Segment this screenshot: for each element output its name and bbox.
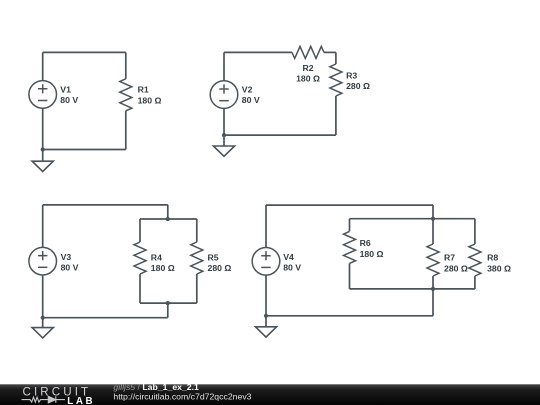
label V1 80 V [60,84,78,105]
wire C3 R5 lower lead [196,274,198,303]
wire C4 ground stem [265,316,267,327]
resistor R8 [469,244,481,276]
svg-text:80 V: 80 V [242,95,260,105]
wire C3 R4 upper lead [139,219,141,242]
resistor R4 [134,242,146,274]
voltage source V3 [29,247,57,275]
wire C3 top drop [167,205,169,219]
wire C2 right-upper [335,52,337,64]
svg-text:180 Ω: 180 Ω [296,73,320,83]
svg-text:R2: R2 [302,63,313,73]
ground GND3 [32,328,53,338]
label V4 80 V [283,252,301,273]
junction node C2 ground [222,133,226,137]
svg-text:280 Ω: 280 Ω [208,263,232,273]
junction node C4 top rail [431,217,435,221]
resistor R5 [191,242,203,274]
svg-text:R3: R3 [346,70,357,80]
wire C3 R5 upper lead [196,219,198,242]
voltage source V1 [29,81,57,109]
label R4 180 Ohm [151,253,175,273]
wire C4 R7 upper lead [432,219,434,244]
svg-text:180 Ω: 180 Ω [138,96,162,106]
wire C1 left-upper [42,52,44,80]
wire C3 left-upper [42,205,44,248]
wire C1 ground stem [42,150,44,162]
logo wire-resistor-diode art [22,396,66,403]
label R8 380 Ohm [487,252,511,273]
wire C2 bottom [224,134,336,136]
wire C4 R6 upper lead [349,219,351,232]
resistor R6 [344,231,356,263]
svg-text:180 Ω: 180 Ω [360,249,384,259]
wire C2 top-left [224,51,292,53]
wire C4 left-upper [265,205,267,247]
wire C1 bottom [43,149,126,151]
label R3 280 Ohm [346,70,370,91]
wire C3 bottom drop [167,303,169,318]
svg-text:R7: R7 [444,252,455,262]
junction node C4 bottom rail [431,287,435,291]
wire C1 left-lower [42,108,44,149]
wire C3 left-lower [42,275,44,318]
svg-text:80 V: 80 V [61,263,79,273]
svg-text:R5: R5 [208,253,219,263]
wire C2 ground stem [223,135,225,146]
wire C3 bottom rail [140,302,197,304]
wire C2 right-lower [335,96,337,135]
svg-text:280 Ω: 280 Ω [444,263,468,273]
wire C3 bottom [43,317,168,319]
wire C4 bottom [266,315,433,317]
svg-text:80 V: 80 V [283,263,301,273]
wire C4 top drop [432,205,434,219]
wire C1 top [43,51,126,53]
wire C4 R8 lower lead [474,276,476,289]
ground GND2 [213,146,234,156]
svg-text:V4: V4 [283,252,294,262]
wire C4 R7 lower lead [432,276,434,289]
label R5 280 Ohm [208,253,232,273]
junction node C3 top rail [166,217,170,221]
wire C2 left-upper [223,52,225,80]
wire C4 top [266,204,433,206]
label R6 180 Ohm [360,238,384,259]
label V2 80 V [242,85,260,106]
resistor R2 [292,46,324,58]
wire C4 left-lower [265,275,267,316]
svg-text:LAB: LAB [67,396,95,405]
svg-text:R4: R4 [151,253,162,263]
resistor R7 [427,244,439,276]
svg-text:380 Ω: 380 Ω [487,263,511,273]
svg-text:R1: R1 [138,85,149,95]
resistor R1 [120,79,132,111]
svg-text:V2: V2 [242,85,253,95]
label V3 80 V [61,252,79,273]
label R2 180 Ohm [296,63,320,83]
junction node C4 ground [264,314,268,318]
wire C3 R4 lower lead [139,274,141,303]
wire C4 R8 upper lead [474,219,476,244]
svg-text:http://circuitlab.com/c7d72qcc: http://circuitlab.com/c7d72qcc2nev3 [113,392,251,402]
junction node C1 ground [41,147,45,151]
svg-text:R8: R8 [487,252,498,262]
svg-text:280 Ω: 280 Ω [346,81,370,91]
resistor R3 [330,64,342,96]
svg-text:R6: R6 [360,238,371,248]
svg-text:180 Ω: 180 Ω [151,263,175,273]
label R7 280 Ohm [444,252,468,273]
wire C3 top [43,204,168,206]
svg-text:V3: V3 [61,252,72,262]
label R1 180 Ohm [138,85,162,106]
wire C3 top rail [140,218,197,220]
wire C4 bottom drop [432,289,434,316]
wire C4 R6 lower lead [349,263,351,289]
svg-text:80 V: 80 V [60,95,78,105]
wire C4 top rail [350,218,475,220]
wire C4 bottom rail [350,288,475,290]
svg-text:V1: V1 [60,84,71,94]
wire C1 right-upper [125,52,127,78]
wire C2 left-lower [223,108,225,135]
ground GND1 [32,161,53,171]
wire C3 ground stem [42,318,44,328]
voltage source V2 [210,81,238,109]
voltage source V4 [252,247,280,275]
ground GND4 [255,327,276,337]
junction node C3 ground [41,316,45,320]
wire C1 right-lower [125,111,127,150]
junction node C3 bottom rail [166,301,170,305]
wire C2 top-right [324,51,336,53]
